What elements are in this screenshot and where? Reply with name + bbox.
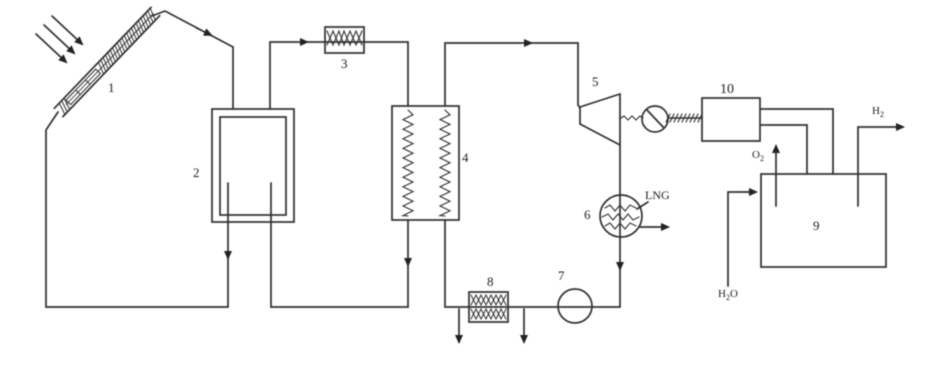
wire HX4 right top to turbine <box>445 43 580 108</box>
svg-text:O2: O2 <box>752 149 764 163</box>
heat exchanger 4 shell <box>392 106 459 220</box>
condenser 8 box <box>469 292 508 322</box>
svg-text:9: 9 <box>813 218 820 233</box>
cooling water stub left <box>458 309 460 342</box>
wire HX4 left bottom down <box>407 220 409 307</box>
svg-text:4: 4 <box>462 150 469 165</box>
HX4 right coil <box>440 110 450 216</box>
wire HX2 top right up <box>270 42 408 109</box>
turbine 5 <box>580 94 620 145</box>
wire 10 to electrolyzer top line <box>760 109 833 174</box>
electric box 10 <box>702 98 760 141</box>
svg-text:3: 3 <box>341 56 348 71</box>
flow arrow solar return down <box>227 246 229 258</box>
pump 7 circle <box>558 289 592 323</box>
LNG feed line <box>637 202 648 209</box>
shaft turbine to generator <box>621 116 643 120</box>
flow arrow condensate down <box>619 257 621 269</box>
svg-text:8: 8 <box>487 274 494 289</box>
sun ray arrow c <box>36 34 66 62</box>
H2 tube <box>858 127 902 206</box>
wire corner down into HX2 <box>232 47 234 109</box>
H2 arrow <box>890 126 903 128</box>
wire collector bottom to left down <box>46 112 228 307</box>
HX3 zigzag <box>327 31 362 45</box>
flow arrow turbine inlet <box>518 42 531 44</box>
svg-text:10: 10 <box>720 82 734 97</box>
wire turbine outlet down <box>619 145 621 307</box>
generator slash <box>647 110 664 128</box>
wire right loop bottom <box>445 220 620 307</box>
svg-text:H2: H2 <box>872 105 884 119</box>
svg-text:2: 2 <box>193 165 200 180</box>
shaft generator to box 10 <box>666 114 702 122</box>
HX2 internal pipe right <box>270 183 272 222</box>
HX4 left coil <box>403 110 413 216</box>
svg-text:H2O: H2O <box>718 288 738 302</box>
flow arrow middle loop down <box>407 252 409 265</box>
HX6 coil lines <box>602 205 639 229</box>
wire collector top to corner <box>152 11 233 47</box>
NG outlet arrow <box>640 226 668 228</box>
svg-text:5: 5 <box>592 74 599 89</box>
LNG vaporizer 6 circle <box>600 195 642 237</box>
sun ray arrow a <box>52 16 82 44</box>
HX8 zigzag top <box>471 295 506 305</box>
svg-text:7: 7 <box>558 268 565 283</box>
wire HX3 to HX4 top <box>407 42 409 106</box>
svg-text:6: 6 <box>584 207 591 222</box>
O2 tube with up arrow <box>775 146 777 206</box>
heat exchanger 2 inner shell <box>220 117 286 215</box>
flow arrow middle loop top <box>295 41 307 43</box>
electrolyzer 9 box <box>761 174 886 267</box>
flow arrow on collector outlet <box>196 28 211 35</box>
H2O feed arrow <box>744 191 756 193</box>
cooling water stub right <box>523 309 525 342</box>
sun ray arrow b <box>44 25 74 53</box>
wire 10 to electrolyzer second line <box>760 125 807 174</box>
H2O feed line <box>728 192 753 286</box>
solar return pipe inside HX2 <box>227 183 229 222</box>
heat exchanger 2 outer shell <box>212 109 294 222</box>
generator G1 circle <box>642 106 668 132</box>
svg-text:LNG: LNG <box>645 188 670 202</box>
solar collector 1 body <box>54 7 159 116</box>
wire middle loop bottom <box>271 222 408 307</box>
heat exchanger 3 box <box>325 27 364 53</box>
svg-text:1: 1 <box>108 80 115 95</box>
HX8 zigzag bottom <box>471 309 506 319</box>
